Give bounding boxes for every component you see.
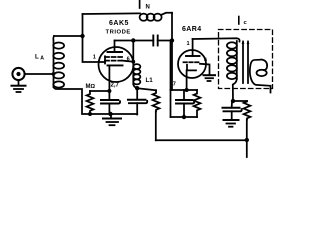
svg-text:L: L [35, 54, 39, 61]
node 6AR4 cathode junction [185, 88, 189, 92]
node resistor R1 bottom [88, 112, 92, 116]
svg-text:6AK5: 6AK5 [109, 20, 129, 27]
plate bar (6AR4) [186, 55, 200, 57]
link loop (output) [250, 60, 271, 93]
node RC bottom [182, 115, 186, 119]
plate bar (6AK5) [108, 51, 123, 53]
wire cathode node to grid resistor [90, 90, 109, 92]
svg-text:6: 6 [204, 58, 207, 64]
wire grid to ground (grounded grid) [200, 64, 210, 75]
capacitor C2 (plate bypass) [128, 88, 147, 114]
ground (6AR4 grid) [204, 75, 216, 81]
resistor R1 (grid leak) [87, 91, 94, 114]
svg-text:2,7: 2,7 [111, 83, 120, 89]
grid row 1 (6AK5) [105, 56, 122, 58]
cathode (6AR4) [187, 65, 196, 71]
node ground bus [108, 112, 112, 116]
plate lead up (6AK5) [114, 41, 116, 53]
wire node to R4 [233, 100, 247, 102]
cathode lead down (6AK5) [108, 65, 110, 91]
coil LN [140, 13, 172, 21]
svg-text:A: A [40, 56, 44, 62]
label LA [35, 54, 44, 62]
svg-text:MΩ: MΩ [86, 84, 96, 90]
cathode lead down (6AR4) [186, 70, 188, 90]
capacitor C3 (cathode) [101, 91, 120, 114]
wire grid lead into tube [99, 61, 105, 63]
svg-text:6AR4: 6AR4 [182, 26, 202, 33]
6AK5 cathode node [107, 89, 111, 93]
wire R4 to bottom rail [246, 120, 248, 141]
wire screen to pin6 node [122, 61, 133, 62]
wire B+ stub [246, 140, 248, 157]
wire plate to coupling cap [115, 40, 154, 42]
capacitor C4 (6AR4 cathode) [176, 90, 194, 117]
wire LA top to grid rail [54, 35, 83, 37]
coil LA [53, 36, 64, 88]
capacitor C1 (coupling) [153, 36, 157, 46]
svg-text:7: 7 [173, 82, 176, 88]
node tap on LA [52, 72, 56, 76]
plate lead (6AR4) [192, 39, 194, 56]
cathode bar (6AK5) [108, 64, 123, 66]
wire coupling node down to 6AR4 cathode circuit [171, 41, 173, 91]
svg-text:TRIODE: TRIODE [106, 30, 131, 36]
wire cap to coupling node [158, 40, 172, 42]
ground (center) [103, 114, 121, 125]
resistor R2 (plate dropping) [153, 90, 160, 140]
wire RC left branch [170, 41, 172, 118]
transformer T1 primary [227, 41, 237, 101]
wire jack to coil tap [25, 73, 54, 75]
resistor R4 (B+ feed) [244, 101, 251, 120]
wire LN right down to coupling node [171, 13, 173, 41]
node pin6 [131, 60, 135, 64]
svg-text:L1: L1 [146, 77, 154, 84]
resistor R3 (6AR4 cathode) [194, 90, 201, 117]
node plate/L1 junction [131, 38, 135, 42]
transformer core lines [242, 40, 250, 83]
wire cathode RC top [171, 89, 198, 91]
svg-text:1: 1 [93, 54, 96, 60]
svg-text:N: N [146, 5, 150, 11]
wire L1 branch down [132, 41, 134, 85]
grid dashes (6AR4) [184, 61, 201, 63]
ground (under transformer) [224, 120, 239, 127]
tube 6AK5 V1 [99, 47, 134, 82]
node L1 bottom [135, 86, 139, 90]
svg-text:c: c [244, 20, 248, 26]
tube 6AR4 V2 [178, 50, 206, 78]
svg-text:1: 1 [187, 41, 190, 47]
ground (below jack) [12, 80, 26, 92]
node bottom rail [245, 138, 249, 142]
node junction coil-top / rail [80, 34, 84, 38]
coil L1 [133, 64, 140, 88]
wire rail x82 top to grid [83, 14, 100, 62]
wire to dropping resistor [137, 88, 156, 90]
bottom rail [156, 139, 247, 141]
capacitor C5 (output bypass) [223, 101, 242, 120]
shield box (dashed) [219, 30, 273, 89]
input jack J1 [12, 68, 24, 80]
label LN [140, 0, 150, 11]
grid rail (6AK5) [104, 56, 106, 63]
grid row 2 (6AK5) [105, 60, 122, 62]
wire 6AR4 plate to transformer [193, 38, 240, 41]
wire RC bottom [171, 116, 198, 118]
wire LA bottom to ground bus [54, 87, 138, 114]
node coupling junction [170, 38, 174, 42]
node transformer bottom [231, 99, 235, 103]
label Lc [239, 17, 248, 27]
wire top rail to LN [83, 12, 141, 15]
